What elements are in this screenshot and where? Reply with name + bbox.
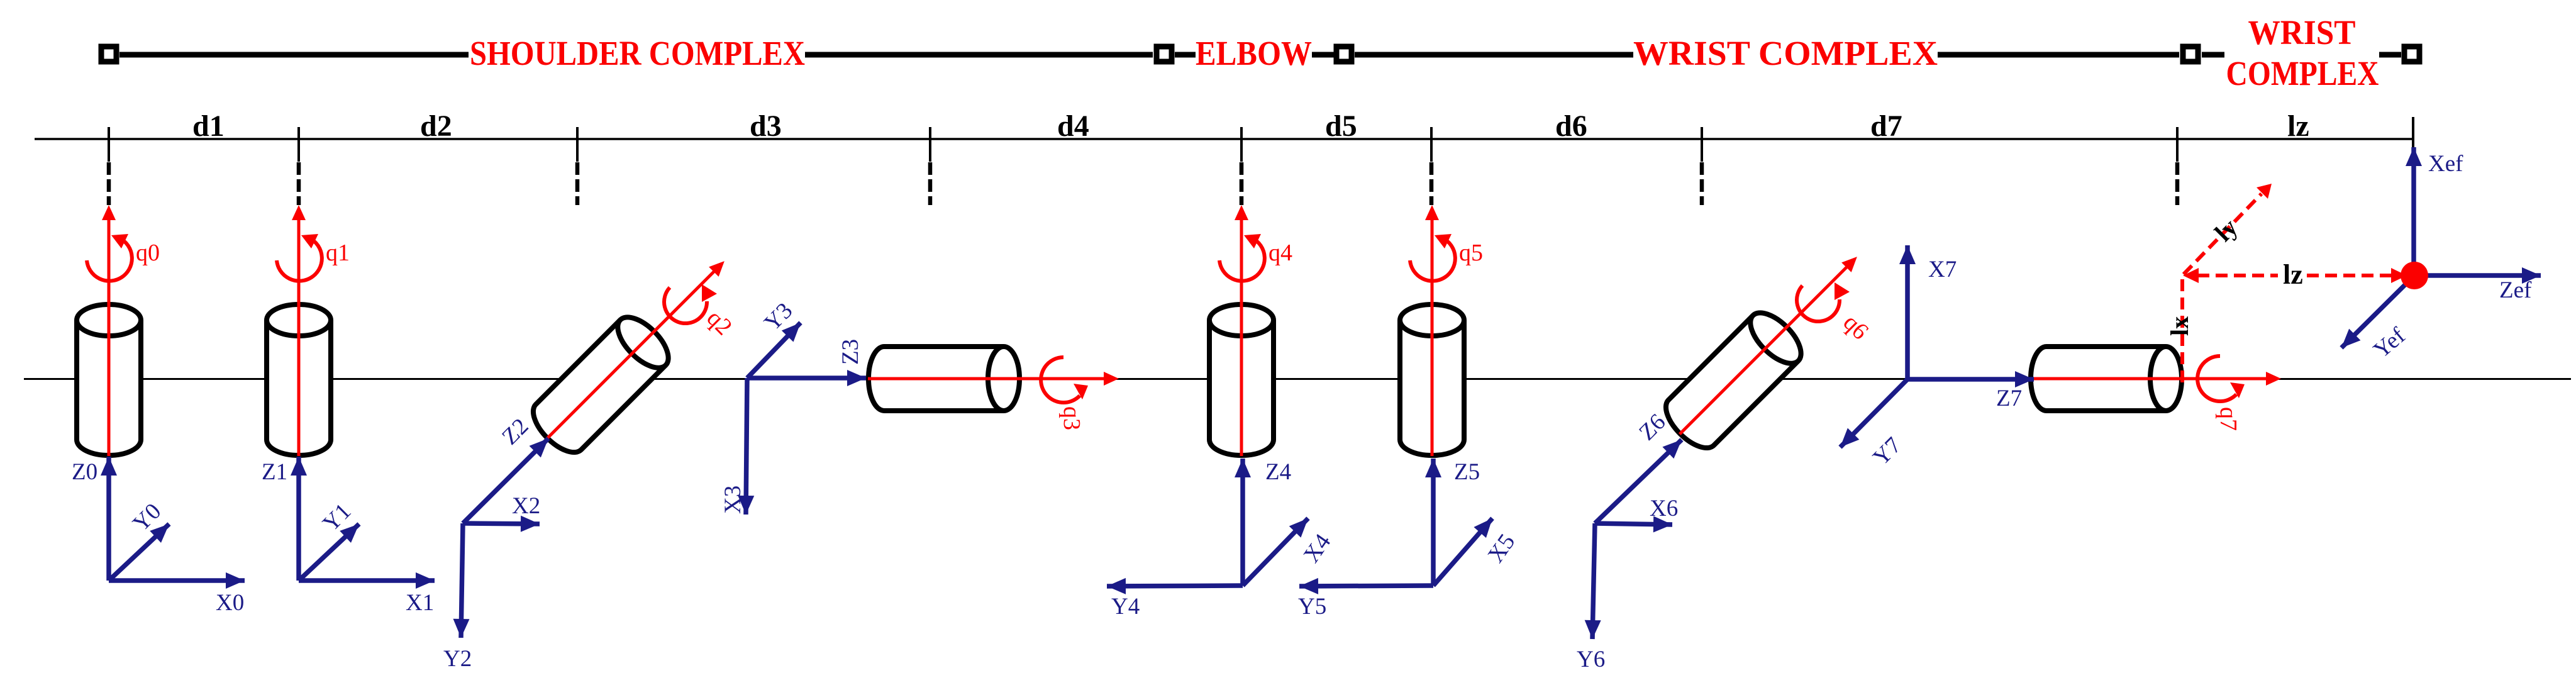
node tick x=1479: [929, 127, 931, 162]
axis arrow Zef: [2414, 273, 2541, 278]
wire main horizontal axis line: [24, 378, 2571, 380]
axis arrow X1: [299, 578, 435, 583]
axis arrow X4: [1243, 518, 1308, 586]
svg-text:d4: d4: [1057, 109, 1089, 143]
axis arrow Y1: [299, 524, 359, 581]
cylinder joint 5: [1400, 304, 1464, 455]
axis arrow X5: [1433, 518, 1492, 586]
svg-text:X1: X1: [406, 590, 434, 616]
node end-effector origin dot: [2401, 262, 2428, 289]
svg-text:Z3: Z3: [838, 339, 863, 365]
cylinder joint 6: [1657, 304, 1809, 457]
axis arrow Z0: [106, 457, 111, 581]
rotation arrow q0: [87, 234, 132, 281]
svg-text:d2: d2: [420, 109, 452, 143]
node tick x=475: [297, 127, 300, 162]
axis arrow Y3: [747, 323, 801, 378]
axis arrow Y2: [461, 523, 463, 638]
axis arrow X0: [109, 578, 245, 583]
svg-text:q7: q7: [2215, 407, 2241, 431]
axis arrow X6: [1595, 523, 1672, 525]
axis arrow Z1: [296, 457, 301, 581]
cylinder joint 7: [2031, 347, 2182, 411]
cylinder joint 3: [869, 347, 1019, 411]
node tick x=173: [108, 127, 110, 162]
svg-text:X7: X7: [1928, 257, 1957, 282]
svg-text:X2: X2: [512, 493, 540, 519]
rotation arrow q4: [1219, 234, 1265, 281]
rotation arrow q2: [664, 284, 717, 323]
axis joint 1 (q1): [292, 205, 306, 456]
svg-text:Zef: Zef: [2499, 277, 2532, 303]
axis arrow Xef: [2411, 147, 2416, 275]
axis joint 0 (q0): [102, 205, 116, 456]
axis arrow Y6: [1592, 523, 1595, 639]
wire red dashed lx: [2180, 279, 2184, 385]
rotation arrow q3: [1041, 357, 1088, 403]
axis arrow X2: [463, 523, 540, 524]
wire top bracket segment 1: [119, 52, 469, 58]
axis arrow Y5: [1299, 586, 1433, 586]
node square marker 5: [2404, 47, 2419, 62]
rotation arrow q5: [1410, 234, 1455, 281]
axis joint 5 (q5): [1425, 205, 1439, 456]
axis arrow Z2: [463, 438, 548, 523]
node tick x=918: [576, 127, 579, 162]
svg-text:WRIST COMPLEX: WRIST COMPLEX: [1633, 34, 1938, 72]
wire top bracket segment 7: [2202, 52, 2224, 58]
svg-text:d7: d7: [1870, 109, 1902, 143]
cylinder joint 2: [525, 309, 677, 461]
rotation arrow q6: [1797, 282, 1850, 321]
svg-text:Xef: Xef: [2428, 151, 2463, 177]
svg-text:Y2: Y2: [443, 646, 472, 672]
svg-text:Y4: Y4: [1111, 594, 1140, 620]
svg-text:d6: d6: [1555, 109, 1587, 143]
axis arrow Y7: [1840, 379, 1907, 447]
axis arrow X3: [746, 378, 747, 515]
node square marker 4: [2183, 47, 2198, 62]
svg-text:X6: X6: [1650, 496, 1678, 521]
axis joint 7 (q7): [2030, 372, 2281, 386]
axis joint 2 (q2): [542, 256, 730, 443]
svg-text:SHOULDER COMPLEX: SHOULDER COMPLEX: [470, 34, 805, 72]
cylinder joint 0: [77, 304, 141, 455]
axis arrow Z5: [1431, 459, 1436, 586]
node tick x=3462: [2176, 127, 2179, 162]
wire top bracket segment 4: [1312, 52, 1334, 58]
axis arrow Yef: [2341, 275, 2414, 348]
wire top bracket segment 3: [1175, 52, 1196, 58]
svg-text:d5: d5: [1325, 109, 1357, 143]
svg-text:q0: q0: [136, 240, 160, 266]
axis arrow Z4: [1240, 459, 1245, 586]
svg-text:Z0: Z0: [72, 459, 97, 485]
node tick x=2706: [1701, 127, 1703, 162]
axis arrow Z3: [747, 376, 866, 381]
svg-text:X0: X0: [216, 590, 244, 616]
axis arrow Z7: [1907, 377, 2034, 382]
svg-text:ELBOW: ELBOW: [1196, 34, 1312, 72]
svg-text:lx: lx: [2165, 316, 2194, 336]
cylinder joint 4: [1209, 304, 1274, 455]
svg-text:Y6: Y6: [1577, 647, 1605, 672]
axis arrow Z6: [1595, 440, 1682, 523]
svg-text:Y5: Y5: [1298, 594, 1326, 620]
svg-text:q3: q3: [1058, 406, 1085, 430]
svg-text:lz: lz: [2287, 109, 2309, 143]
axis arrow X7: [1905, 245, 1910, 379]
rotation arrow q1: [277, 234, 322, 281]
svg-text:d3: d3: [750, 109, 782, 143]
svg-text:d1: d1: [192, 109, 225, 143]
wire top bracket segment 6: [1938, 52, 2179, 58]
svg-text:COMPLEX: COMPLEX: [2226, 54, 2379, 92]
wire red dashed ly: [2184, 194, 2262, 274]
wire dimension line: [35, 138, 2413, 140]
axis arrow Y4: [1107, 586, 1243, 586]
wire top bracket segment 8: [2379, 52, 2401, 58]
node tick end-effector: [2412, 117, 2414, 150]
wire red dashed lz: [2197, 274, 2392, 277]
svg-text:Z5: Z5: [1454, 459, 1480, 485]
node tick x=2276: [1430, 127, 1433, 162]
node square marker 2: [1157, 47, 1172, 62]
axis joint 4 (q4): [1235, 205, 1248, 456]
node square marker 1: [101, 47, 116, 62]
svg-text:WRIST: WRIST: [2248, 13, 2356, 52]
svg-text:Z1: Z1: [262, 459, 287, 485]
svg-text:Z4: Z4: [1265, 459, 1291, 485]
axis joint 6 (q6): [1675, 252, 1862, 439]
svg-text:q4: q4: [1269, 240, 1292, 266]
node tick x=1974: [1240, 127, 1243, 162]
axis joint 3 (q3): [868, 372, 1119, 386]
svg-text:lz: lz: [2283, 259, 2303, 290]
axis arrow Y0: [109, 524, 169, 581]
cylinder joint 1: [267, 304, 331, 455]
node square marker 3: [1336, 47, 1352, 62]
wire top bracket segment 5: [1355, 52, 1633, 58]
wire top bracket segment 2: [805, 52, 1153, 58]
svg-text:q5: q5: [1459, 240, 1483, 266]
rotation arrow q7: [2197, 356, 2245, 401]
svg-text:q1: q1: [326, 240, 350, 266]
svg-text:Z7: Z7: [1996, 386, 2022, 411]
svg-text:X3: X3: [720, 486, 746, 514]
